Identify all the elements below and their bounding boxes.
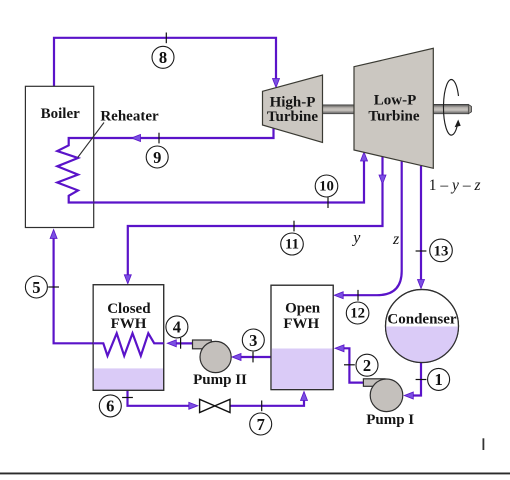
svg-text:Pump I: Pump I <box>366 412 414 428</box>
svg-text:z: z <box>392 231 400 248</box>
svg-text:1: 1 <box>434 370 442 389</box>
svg-text:High-P: High-P <box>270 94 316 110</box>
svg-text:Turbine: Turbine <box>368 109 419 125</box>
svg-text:12: 12 <box>350 306 365 322</box>
svg-text:8: 8 <box>159 48 167 67</box>
svg-text:9: 9 <box>153 148 161 167</box>
svg-text:6: 6 <box>106 397 114 416</box>
svg-text:5: 5 <box>32 278 40 297</box>
svg-text:Pump II: Pump II <box>193 372 247 388</box>
svg-text:13: 13 <box>434 243 449 259</box>
svg-text:y: y <box>351 230 361 247</box>
svg-text:Turbine: Turbine <box>267 109 318 125</box>
svg-text:Open: Open <box>285 300 321 316</box>
svg-text:3: 3 <box>249 331 257 350</box>
svg-text:Low-P: Low-P <box>374 93 417 109</box>
svg-text:4: 4 <box>173 318 181 337</box>
svg-text:Boiler: Boiler <box>41 106 80 122</box>
svg-text:7: 7 <box>257 415 265 434</box>
svg-text:Condenser: Condenser <box>387 312 457 328</box>
svg-text:11: 11 <box>285 237 299 253</box>
svg-text:FWH: FWH <box>283 316 319 332</box>
svg-text:1 – y – z: 1 – y – z <box>429 177 481 194</box>
svg-text:2: 2 <box>363 356 371 375</box>
svg-text:FWH: FWH <box>111 316 147 332</box>
svg-text:Reheater: Reheater <box>100 109 159 125</box>
svg-text:10: 10 <box>319 179 334 195</box>
svg-text:Closed: Closed <box>107 301 151 317</box>
